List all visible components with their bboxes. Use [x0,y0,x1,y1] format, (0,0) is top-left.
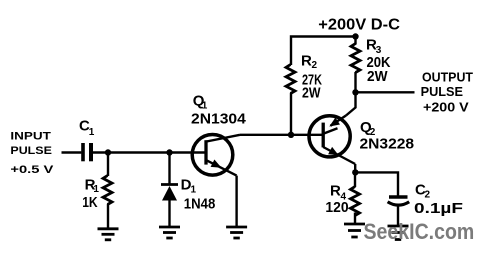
svg-text:+200V D-C: +200V D-C [318,17,400,34]
resistor R3 [351,44,360,73]
transistor Q2 [309,116,355,165]
wire C1 to Q1 base [93,151,206,153]
wire output [356,91,415,93]
wire emitter junction to C2 [355,172,398,196]
svg-text:2N1304: 2N1304 [191,111,246,128]
wire D1 bottom lead [168,201,170,228]
node emitter junction [352,169,358,175]
node output junction [352,89,358,95]
wire D1 top lead [168,153,170,185]
wire C2 bottom lead [397,206,399,227]
label R3 20K 2W [366,37,391,86]
wire Q1 collector to Q2 base [240,134,323,136]
svg-text:SeekIC.com: SeekIC.com [364,219,475,244]
label Q1 2N1304 [191,93,246,128]
wire R1 bottom lead [107,204,109,229]
svg-text:1N48: 1N48 [184,196,216,213]
label C1 [79,118,95,138]
wire Q2 collector [346,92,356,115]
svg-text:2N3228: 2N3228 [360,136,415,153]
wire Q2 emitter lead [354,164,356,172]
svg-text:+0.5 V: +0.5 V [10,164,54,176]
svg-text:1: 1 [89,127,95,138]
ground R4 [344,224,365,237]
label Q2 2N3228 [360,119,415,153]
svg-text:2W: 2W [302,85,321,102]
svg-text:R: R [301,53,312,70]
label C2 0.1uF [414,182,463,218]
svg-text:+200 V: +200 V [423,101,469,115]
node +200V rail junction [352,33,358,39]
label R4 120 [325,183,348,216]
ground D1 [159,227,180,238]
wire R2 top lead and +200V rail [291,37,356,66]
svg-text:INPUT: INPUT [10,130,51,142]
transistor Q1 [192,135,240,176]
svg-text:2: 2 [425,190,431,201]
diode D1 [161,185,178,201]
capacitor C2 [388,197,410,205]
svg-text:1: 1 [191,185,197,196]
ground C2 [388,226,409,240]
wire R3 bottom lead [354,72,356,92]
wire R2 bottom lead [290,93,292,135]
svg-text:R: R [330,183,341,200]
svg-text:PULSE: PULSE [421,85,463,99]
wire R1 top lead [107,153,109,177]
svg-text:2W: 2W [367,68,388,85]
wire R4 bottom lead [354,213,356,225]
label OUTPUT PULSE +200V [421,71,474,115]
wire R4 top lead [354,172,356,187]
svg-text:PULSE: PULSE [10,145,52,157]
node D1 junction [166,149,172,155]
svg-text:0.1µF: 0.1µF [414,200,463,217]
resistor R4 [351,187,360,216]
label D1 1N48 [181,176,216,212]
wire R3 top lead [354,37,356,45]
resistor R2 [286,65,295,94]
resistor R1 [103,176,112,205]
capacitor C1 [81,143,93,161]
label R1 1K [82,176,99,211]
ground Q1 emitter [226,227,247,238]
svg-text:2: 2 [312,60,318,71]
ground R1 [98,229,119,240]
wire input [62,151,82,153]
wire Q1 emitter to ground [235,176,237,227]
label INPUT PULSE +0.5V [10,130,54,175]
node C1/R1 junction [105,149,111,155]
svg-text:1K: 1K [82,194,98,211]
svg-text:120: 120 [325,199,348,216]
svg-text:OUTPUT: OUTPUT [422,71,473,85]
label R2 27K 2W [301,53,322,102]
node R2 junction [288,132,294,138]
